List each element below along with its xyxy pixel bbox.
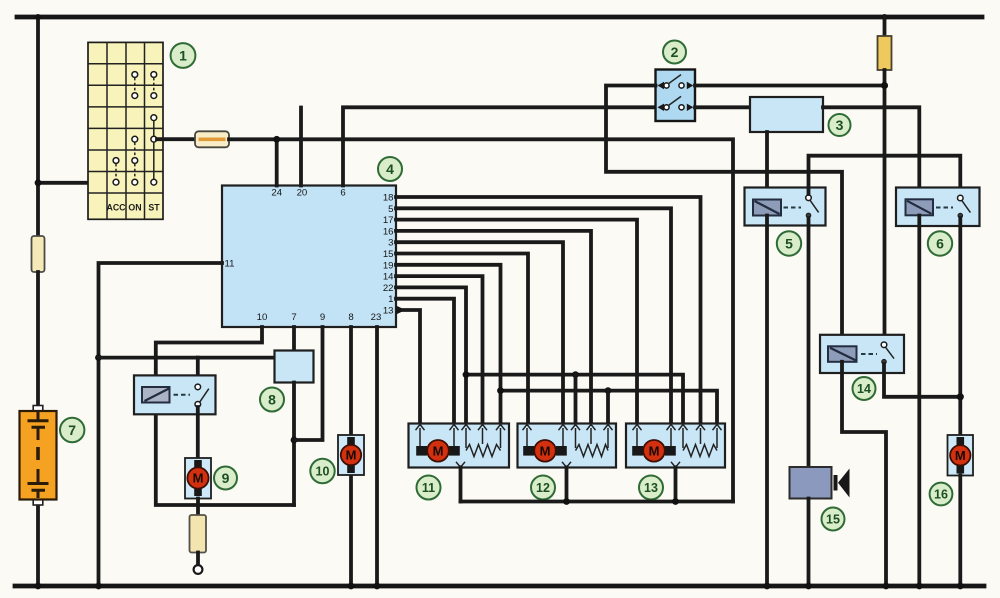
wire: ECU pin 14 bbox=[396, 276, 483, 423]
wire: ignition ST output to fuse bbox=[157, 137, 195, 141]
wire: unit3 bottom to relay 5 coil bbox=[765, 132, 769, 200]
fuse (top right) bbox=[883, 17, 887, 38]
label circle 9 bbox=[214, 467, 237, 490]
svg-text:M: M bbox=[649, 443, 660, 458]
wire: relay6 coil to ground bus bbox=[917, 216, 921, 587]
label circle 15 bbox=[822, 508, 845, 531]
wire: ECU pin 23 to ground bus bbox=[375, 327, 379, 586]
svg-text:13: 13 bbox=[383, 306, 394, 317]
svg-text:12: 12 bbox=[536, 481, 550, 495]
svg-text:15: 15 bbox=[826, 512, 840, 526]
motor assembly 11 bbox=[409, 424, 510, 468]
open terminal bbox=[194, 565, 203, 574]
wire: pin 6 to lock switch bbox=[343, 107, 656, 185]
junction: battery feed to ignition bbox=[35, 179, 42, 186]
svg-text:M: M bbox=[955, 448, 966, 463]
svg-text:9: 9 bbox=[320, 312, 325, 323]
motor 16 bbox=[948, 435, 974, 476]
svg-text:22: 22 bbox=[383, 283, 394, 294]
control unit 3 bbox=[750, 97, 823, 132]
label circle 16 bbox=[930, 483, 953, 506]
svg-text:2: 2 bbox=[671, 44, 679, 60]
wire: relay14 coil bottom to ground bus bbox=[842, 362, 886, 586]
unlock relay (left) bbox=[134, 375, 216, 414]
svg-text:6: 6 bbox=[340, 188, 345, 199]
door lock switch SW2 (2) bbox=[656, 70, 696, 122]
ignition switch SW1 (1) bbox=[88, 42, 163, 219]
svg-text:M: M bbox=[346, 448, 357, 463]
svg-text:5: 5 bbox=[388, 204, 393, 215]
svg-text:M: M bbox=[193, 471, 204, 486]
label circle 3 bbox=[829, 114, 851, 136]
wire: ECU pin 19 bbox=[396, 265, 501, 424]
svg-text:10: 10 bbox=[257, 312, 268, 323]
svg-text:9: 9 bbox=[222, 470, 230, 486]
label circle 14 bbox=[853, 377, 876, 400]
wire: ECU pin 22 bbox=[396, 287, 466, 423]
motor 9 bbox=[185, 458, 211, 499]
motor assembly 13 bbox=[626, 424, 725, 468]
wire: battery bus to ignition switch bbox=[38, 181, 88, 185]
label circle 2 bbox=[663, 41, 686, 64]
relay 6 bbox=[896, 188, 980, 227]
wire: pin 24 bbox=[275, 139, 279, 185]
wire: relay5 coil through to ground bus bbox=[765, 216, 769, 587]
svg-text:1: 1 bbox=[179, 48, 187, 64]
svg-text:8: 8 bbox=[348, 312, 353, 323]
svg-text:5: 5 bbox=[785, 236, 793, 252]
svg-text:7: 7 bbox=[291, 312, 296, 323]
wire: relay14 switch out to motor16 line bbox=[884, 364, 960, 397]
svg-text:10: 10 bbox=[316, 464, 330, 478]
wire: left battery feed vertical bbox=[36, 17, 40, 238]
fusible link bbox=[190, 515, 207, 553]
svg-text:16: 16 bbox=[934, 487, 948, 501]
wire: switch2 upper-right to fuse junction bbox=[695, 84, 885, 88]
wire: relay switch to motor 9 bbox=[196, 407, 200, 459]
ground bus junction dots bbox=[35, 583, 42, 590]
junction: ignition line / pin 24 bbox=[273, 136, 280, 143]
svg-text:14: 14 bbox=[383, 272, 394, 283]
wire: fuse down to relay 14 switch bbox=[883, 70, 887, 341]
svg-text:4: 4 bbox=[386, 161, 394, 177]
wire: relay5 switch out down to horn bbox=[807, 218, 811, 467]
unit 8 bbox=[275, 351, 314, 383]
wire: ECU pin 7 to unit 8 bbox=[292, 327, 296, 351]
svg-text:20: 20 bbox=[297, 188, 308, 199]
contact links bbox=[134, 78, 136, 93]
wire: branch down to relay switch bbox=[196, 358, 200, 383]
wire: unit3 right to relay 6 coil bbox=[823, 107, 919, 199]
wire: loop bottom to relay coil bottom bbox=[156, 403, 294, 505]
svg-text:M: M bbox=[540, 443, 551, 458]
label circle 12 bbox=[531, 476, 555, 500]
wire: unit8 bottom down bbox=[292, 383, 296, 506]
svg-text:M: M bbox=[433, 443, 444, 458]
wire: motor 13 return bbox=[674, 467, 678, 501]
motor 10 bbox=[338, 435, 364, 475]
top power bus bbox=[17, 15, 982, 20]
wire: ECU pin 5 bbox=[396, 208, 671, 423]
svg-text:19: 19 bbox=[383, 260, 394, 271]
junction fuse/switch2 line bbox=[881, 82, 888, 89]
svg-text:14: 14 bbox=[857, 382, 871, 396]
label circle 13 bbox=[639, 476, 663, 500]
svg-text:8: 8 bbox=[268, 392, 276, 408]
label circle 4 bbox=[378, 157, 402, 181]
label circle 7 bbox=[60, 418, 84, 442]
wire: ECU pin 15 bbox=[396, 254, 528, 424]
wire: ECU pin 1 bbox=[396, 299, 454, 424]
motor assembly 12 bbox=[518, 424, 617, 468]
svg-text:1: 1 bbox=[388, 294, 393, 305]
wire: ignition line to right, corner down at x733 bbox=[229, 139, 733, 501]
wire: ECU pin 18 bbox=[396, 197, 701, 424]
svg-text:11: 11 bbox=[422, 481, 435, 495]
label circle 1 bbox=[171, 43, 196, 68]
wire: fusible link to terminal bbox=[196, 553, 200, 565]
wire: motor16 to ground bus bbox=[958, 476, 962, 587]
fuse (ignition output) bbox=[195, 131, 229, 147]
ECU main control unit (4) bbox=[222, 186, 396, 328]
wire: pin11 branch to unit 8 bbox=[99, 356, 275, 360]
wire: ECU pin 9 down and left bbox=[294, 327, 323, 440]
contact circles ST column bbox=[151, 72, 157, 78]
wire: ECU pin 16 bbox=[396, 231, 591, 424]
svg-text:6: 6 bbox=[936, 236, 944, 252]
svg-text:ACC: ACC bbox=[106, 203, 126, 213]
label circle 10 bbox=[310, 459, 334, 483]
wire: motor9 to fusible link bbox=[196, 499, 200, 517]
bottom ground bus bbox=[15, 584, 984, 589]
wire: fuse to battery bbox=[36, 272, 40, 407]
svg-text:15: 15 bbox=[383, 249, 394, 260]
svg-text:23: 23 bbox=[371, 312, 382, 323]
junction pin11 branch bbox=[95, 354, 102, 361]
svg-text:13: 13 bbox=[644, 481, 658, 495]
wire: relay5 switch top to relay6 switch top bbox=[809, 156, 961, 195]
svg-text:ST: ST bbox=[148, 203, 160, 213]
wire: ECU pin 13 with arrow bbox=[397, 306, 406, 314]
svg-text:24: 24 bbox=[271, 188, 282, 199]
contact circles ON column bbox=[132, 72, 138, 78]
relay 5 bbox=[745, 188, 826, 226]
svg-text:17: 17 bbox=[383, 215, 394, 226]
wire: switch2 upper-left branch bbox=[606, 86, 842, 347]
wire: battery to ground bus bbox=[36, 504, 40, 586]
wire: switch2 lower-right to unit 3 bbox=[695, 105, 750, 109]
wire: motor 11 return bbox=[459, 467, 463, 501]
battery B1 (7) bbox=[20, 406, 57, 506]
contact circles ACC column bbox=[113, 158, 119, 164]
distribution line A (pin22 net) bbox=[466, 375, 683, 424]
wire: ECU pin 10 to relay coil bbox=[156, 327, 262, 387]
fuse (left, above battery) bbox=[32, 236, 45, 272]
svg-text:11: 11 bbox=[225, 259, 235, 270]
label circle 6 bbox=[928, 231, 952, 255]
distribution line B (pin19 net) bbox=[501, 391, 718, 424]
motor return bus bbox=[461, 500, 734, 504]
svg-text:16: 16 bbox=[383, 226, 394, 237]
label circle 11 bbox=[417, 476, 441, 500]
label circle 8 bbox=[260, 388, 284, 412]
wire: ECU pin 3 bbox=[396, 242, 563, 423]
wire: ECU pin 17 bbox=[396, 220, 637, 424]
svg-text:18: 18 bbox=[383, 193, 394, 204]
svg-text:ON: ON bbox=[128, 203, 141, 213]
relay 14 bbox=[820, 335, 904, 373]
svg-text:3: 3 bbox=[836, 117, 844, 133]
wire: motor 12 return bbox=[565, 467, 569, 501]
wire: pin 20 stub bbox=[299, 108, 303, 186]
horn 15 bbox=[790, 467, 850, 499]
wire: horn to ground bus bbox=[807, 499, 811, 587]
svg-text:3: 3 bbox=[388, 238, 393, 249]
wire: ECU pin 11 to left and down bbox=[99, 263, 223, 586]
wire: ECU pin 8 through motor 10 to ground bbox=[349, 327, 353, 436]
svg-text:7: 7 bbox=[68, 422, 76, 438]
wire: relay6 switch out down to motor 16 bbox=[958, 218, 962, 436]
label circle 5 bbox=[777, 231, 801, 255]
